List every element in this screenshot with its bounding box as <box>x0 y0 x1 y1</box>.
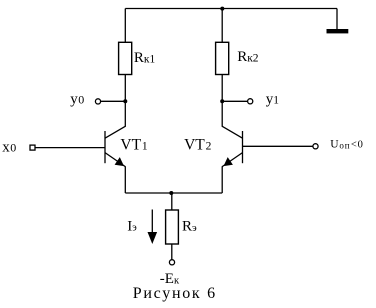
svg-text:VT1: VT1 <box>120 137 147 154</box>
wire: y1 stub <box>222 100 247 102</box>
terminal y1 <box>248 99 253 104</box>
wire: Re top lead <box>171 193 173 210</box>
terminal x0 (input square) <box>30 145 35 150</box>
resistor Rk2 <box>216 42 229 74</box>
wire: Rk2 bottom lead to VT2 collector <box>221 75 223 127</box>
svg-text:Рисунок 6: Рисунок 6 <box>133 285 217 302</box>
svg-text:y0: y0 <box>70 91 84 107</box>
wire: VT1 emitter drop <box>124 166 126 193</box>
wire: VT2 emitter drop <box>221 166 223 193</box>
wire: Re bottom lead <box>171 244 173 260</box>
wire: VT1 base lead <box>35 147 105 149</box>
transistor VT2 <box>222 126 242 166</box>
svg-text:Rк2: Rк2 <box>237 49 259 65</box>
wire: Rk1 bottom lead to VT1 collector <box>124 75 126 127</box>
node y1 junction <box>220 99 224 103</box>
svg-text:Rэ: Rэ <box>182 219 197 235</box>
svg-text:Iэ: Iэ <box>127 219 137 235</box>
wire: Rk1 top lead <box>124 9 126 43</box>
wire: common emitter rail <box>125 192 222 194</box>
wire: y0 stub <box>101 100 126 102</box>
wire: Rk2 top lead <box>221 9 223 43</box>
terminal y0 <box>95 99 100 104</box>
node: common emitter junction <box>169 191 173 195</box>
transistor VT1 <box>105 126 125 166</box>
svg-text:x0: x0 <box>2 140 16 156</box>
svg-text:VT2: VT2 <box>184 137 211 154</box>
resistor Re <box>166 210 179 244</box>
terminal -Ek <box>169 260 174 265</box>
wire: top supply rail <box>125 8 337 10</box>
svg-text:Uоп<0: Uоп<0 <box>330 139 363 151</box>
junction: top rail to Rk2 branch <box>220 7 224 11</box>
wire: ground drop <box>336 9 338 30</box>
wire: VT2 base lead <box>243 145 314 147</box>
ground <box>327 29 349 33</box>
current arrow Ie <box>148 210 158 245</box>
svg-text:Rк1: Rк1 <box>134 50 156 66</box>
terminal Uop <box>313 144 318 149</box>
svg-text:y1: y1 <box>266 91 280 107</box>
resistor Rk1 <box>119 42 132 74</box>
node y0 junction <box>123 99 127 103</box>
